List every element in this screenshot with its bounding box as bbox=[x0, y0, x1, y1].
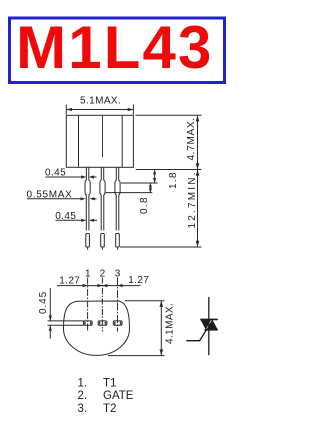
svg-text:0.45: 0.45 bbox=[45, 168, 66, 179]
svg-text:4.1MAX.: 4.1MAX. bbox=[165, 303, 176, 344]
svg-text:1.8: 1.8 bbox=[168, 171, 179, 189]
svg-text:0.55MAX: 0.55MAX bbox=[27, 189, 73, 200]
svg-text:12.7MIN.: 12.7MIN. bbox=[187, 170, 198, 228]
svg-text:1: 1 bbox=[85, 268, 91, 279]
svg-text:T2: T2 bbox=[103, 403, 116, 415]
svg-text:1.27: 1.27 bbox=[128, 275, 149, 286]
svg-text:M1L43: M1L43 bbox=[16, 14, 213, 81]
svg-text:2: 2 bbox=[100, 268, 106, 279]
svg-text:T1: T1 bbox=[103, 377, 116, 389]
svg-text:2.: 2. bbox=[78, 390, 88, 402]
svg-text:1.: 1. bbox=[78, 377, 88, 389]
svg-text:1.27: 1.27 bbox=[59, 276, 80, 287]
svg-text:GATE: GATE bbox=[103, 390, 134, 402]
svg-text:0.45: 0.45 bbox=[55, 211, 76, 222]
svg-text:0.8: 0.8 bbox=[139, 196, 150, 214]
svg-text:4.7MAX.: 4.7MAX. bbox=[186, 117, 197, 160]
svg-text:3.: 3. bbox=[78, 403, 88, 415]
svg-text:3: 3 bbox=[115, 268, 121, 279]
svg-text:0.45: 0.45 bbox=[38, 291, 49, 314]
svg-text:5.1MAX.: 5.1MAX. bbox=[80, 95, 121, 106]
